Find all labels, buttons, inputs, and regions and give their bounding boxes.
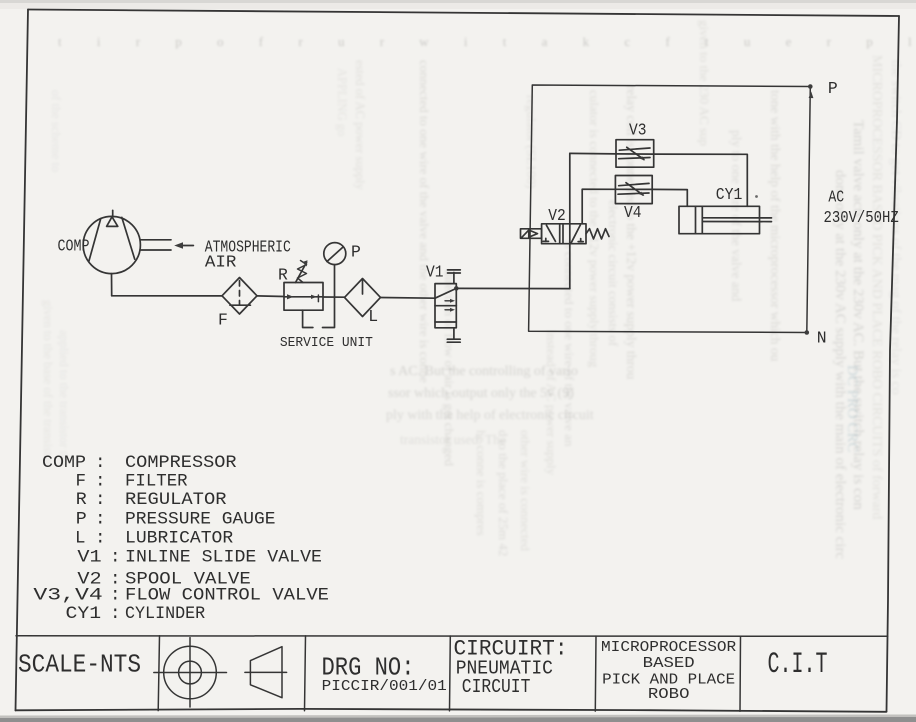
- svg-text:LUBRICATOR: LUBRICATOR: [125, 528, 234, 548]
- V1 bottom exhaust T: [447, 328, 460, 342]
- pressure gauge P: [324, 243, 346, 265]
- V1 junction dot: [454, 286, 459, 291]
- wire V4 right to cylinder cap: [652, 189, 687, 206]
- flow control valve V4: [615, 176, 652, 204]
- svg-text:AIR: AIR: [205, 252, 237, 271]
- svg-text:R: R: [278, 266, 288, 285]
- riser wire through V2 up to V3 line: [569, 153, 571, 288]
- svg-text:V2: V2: [548, 206, 566, 225]
- regulator drain bracket right / gauge tap line: [323, 265, 335, 328]
- label CIRCUIRT PNEUMATIC CIRCUIT: [454, 636, 568, 698]
- svg-text:SERVICE UNIT: SERVICE UNIT: [280, 336, 373, 351]
- wire V4 left to V2 top: [582, 189, 615, 224]
- inline slide valve V1: [435, 284, 456, 328]
- svg-text:REGULATOR: REGULATOR: [125, 490, 227, 510]
- projection symbol frustum: [245, 647, 287, 698]
- svg-text:PRESSURE GAUGE: PRESSURE GAUGE: [125, 509, 276, 529]
- svg-text:V1: V1: [426, 263, 444, 282]
- scanner top edge strip: [0, 0, 916, 9]
- compressor COMP: [83, 210, 140, 273]
- svg-text:230V/50HZ: 230V/50HZ: [824, 208, 899, 227]
- svg-text:V3: V3: [629, 121, 647, 140]
- svg-text:F: F: [76, 471, 87, 491]
- regulator R: [284, 260, 323, 310]
- legend: [33, 453, 329, 624]
- enclosure box P-N: [529, 85, 811, 333]
- svg-text:CY1: CY1: [716, 185, 743, 204]
- svg-text:V3,V4: V3,V4: [33, 586, 102, 606]
- flow control valve V3: [616, 140, 654, 168]
- svg-text:AC: AC: [828, 188, 844, 207]
- svg-text:V4: V4: [624, 203, 642, 222]
- svg-text:F: F: [218, 310, 228, 329]
- svg-text::: :: [95, 453, 106, 473]
- svg-text::: :: [95, 471, 106, 491]
- spool valve V2: [542, 224, 586, 244]
- svg-text:CY1: CY1: [66, 604, 102, 624]
- regulator drain bracket left: [303, 310, 313, 327]
- wire riser to V3 left: [570, 152, 616, 155]
- svg-text:P: P: [351, 243, 361, 262]
- node N: [805, 330, 810, 335]
- wire compressor to filter: [112, 295, 222, 297]
- wire V1 output to riser: [456, 287, 570, 289]
- svg-text::: :: [110, 604, 121, 624]
- V1 top exhaust T: [448, 270, 461, 284]
- wire filter to regulator: [257, 295, 284, 298]
- label DRG NO: [322, 654, 447, 696]
- projection symbol circle: [154, 638, 227, 707]
- svg-text:FILTER: FILTER: [125, 471, 188, 491]
- atmospheric air arrow: [174, 242, 193, 249]
- label MICROPROCESSOR BASED PICK AND PLACE ROBO: [601, 640, 737, 703]
- title block frame: [16, 636, 888, 711]
- svg-text:MICROPROCESSOR: MICROPROCESSOR: [601, 640, 737, 656]
- svg-text:FLOW CONTROL VALVE: FLOW CONTROL VALVE: [125, 586, 329, 606]
- svg-text:L: L: [75, 528, 86, 548]
- svg-text:C.I.T: C.I.T: [768, 648, 828, 682]
- V2 return spring: [586, 229, 609, 239]
- svg-text::: :: [95, 490, 106, 510]
- cylinder CY1: [679, 206, 772, 233]
- svg-text:COMPRESSOR: COMPRESSOR: [125, 453, 237, 473]
- wire compressor outlet down: [111, 274, 113, 296]
- svg-text:COMP: COMP: [42, 453, 86, 473]
- svg-text:P: P: [76, 509, 87, 529]
- svg-text:L: L: [368, 307, 378, 326]
- svg-text:SCALE-NTS: SCALE-NTS: [18, 649, 141, 679]
- svg-text::: :: [95, 528, 106, 548]
- svg-text:R: R: [76, 490, 88, 510]
- speck: [755, 195, 758, 198]
- wire lubricator to V1: [381, 297, 436, 300]
- svg-text::: :: [95, 509, 106, 529]
- wire V3 right to cylinder head: [654, 154, 748, 206]
- svg-text::: :: [110, 586, 121, 606]
- svg-text:N: N: [817, 329, 827, 348]
- svg-text:PICK AND PLACE: PICK AND PLACE: [602, 672, 735, 688]
- lubricator L: [345, 279, 381, 317]
- V2 solenoid: [521, 229, 542, 239]
- atmospheric air intake pipes: [140, 240, 171, 250]
- svg-text:INLINE SLIDE VALVE: INLINE SLIDE VALVE: [125, 548, 322, 568]
- svg-text:PICCIR/001/01: PICCIR/001/01: [322, 679, 447, 695]
- wire regulator to lubricator: [323, 296, 345, 298]
- scanner bottom shadow band: [0, 715, 916, 722]
- svg-text::: :: [110, 548, 121, 568]
- svg-text:V1: V1: [77, 548, 101, 568]
- svg-text:ROBO: ROBO: [648, 687, 690, 703]
- node P: [808, 84, 813, 98]
- svg-text:COMP: COMP: [58, 237, 90, 256]
- svg-text:P: P: [828, 79, 838, 98]
- svg-text:BASED: BASED: [643, 656, 695, 672]
- svg-text:CIRCUIT: CIRCUIT: [462, 676, 531, 698]
- filter F: [222, 278, 257, 315]
- label ATMOSPHERIC AIR: [205, 237, 291, 271]
- label AC 230V/50HZ: [824, 188, 899, 227]
- svg-text:CYLINDER: CYLINDER: [125, 604, 206, 624]
